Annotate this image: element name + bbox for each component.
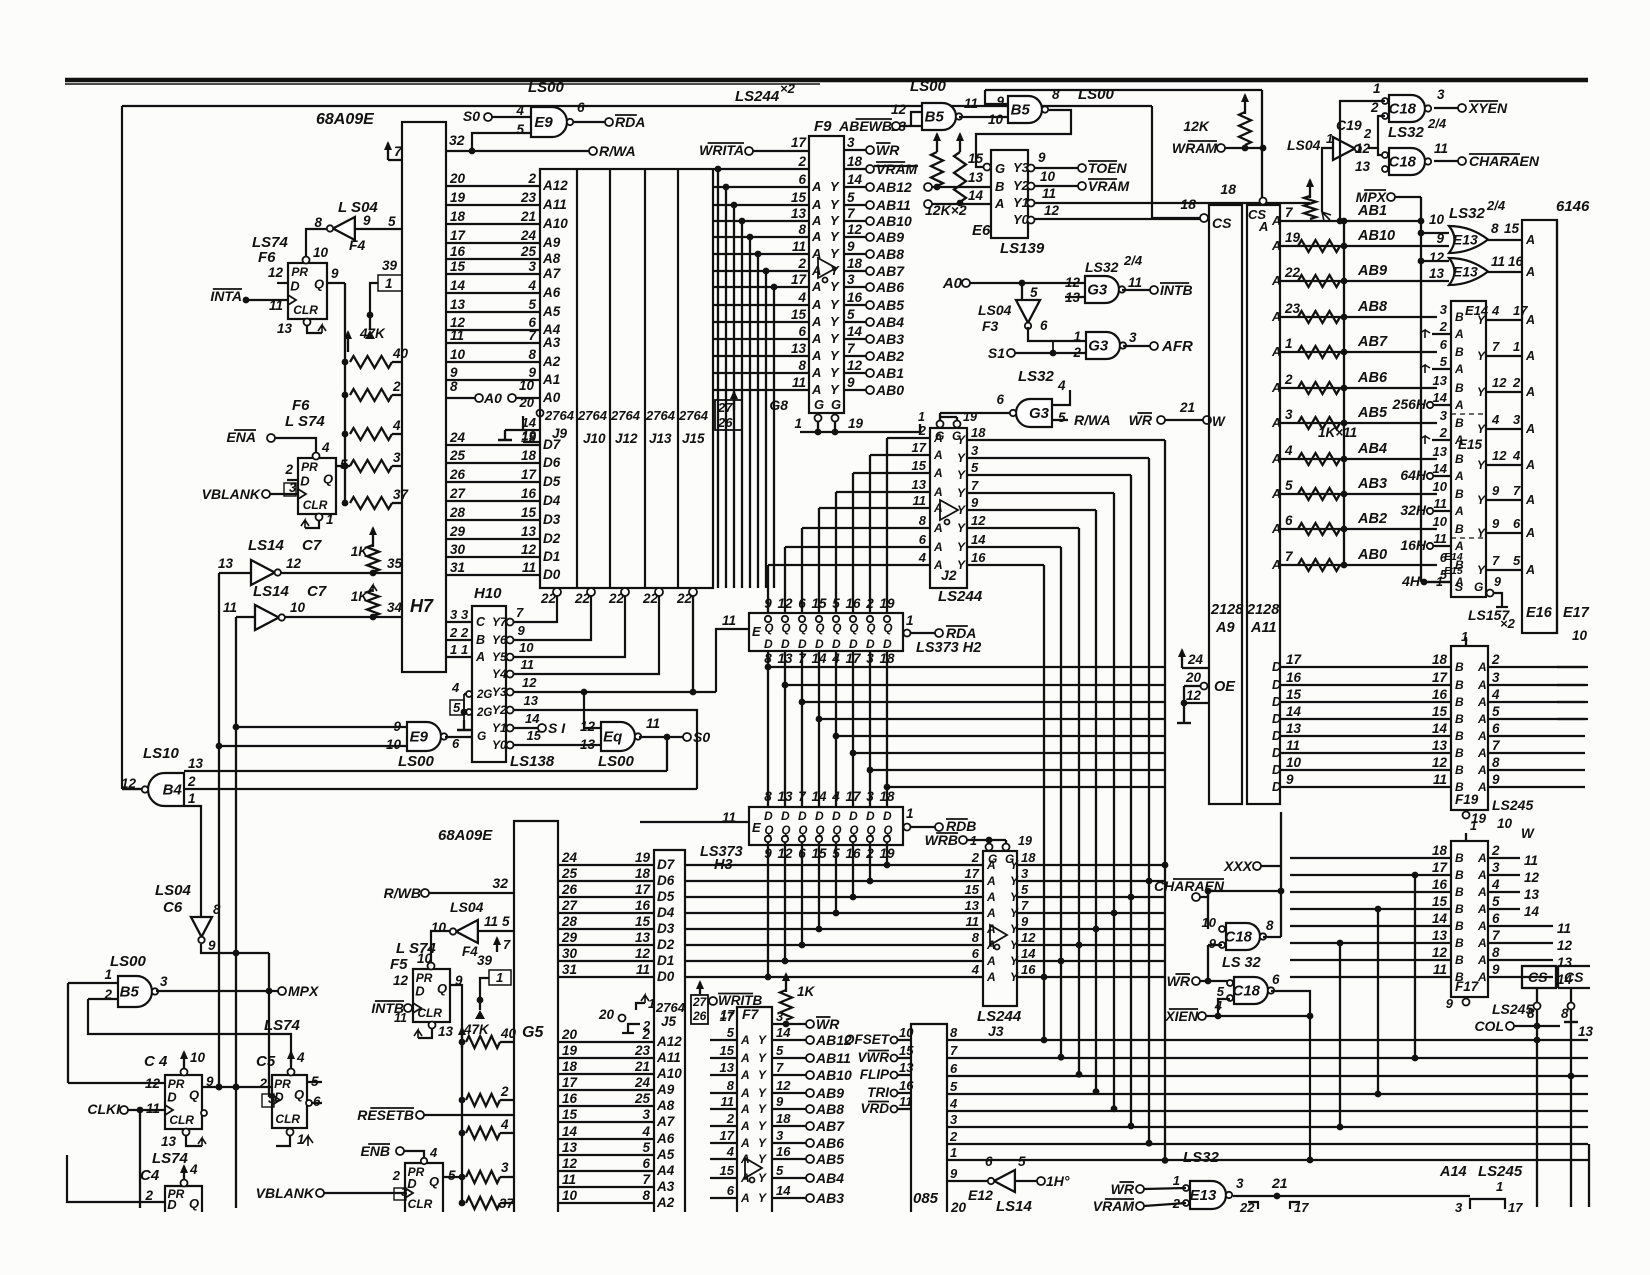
svg-text:4: 4 xyxy=(1491,412,1500,427)
svg-text:A: A xyxy=(933,558,943,572)
svg-text:15: 15 xyxy=(635,914,651,929)
svg-text:17: 17 xyxy=(912,440,927,455)
svg-text:Y3: Y3 xyxy=(492,685,507,699)
svg-text:LS00: LS00 xyxy=(528,79,565,96)
IC F7 LS244 buffer xyxy=(737,1007,772,1212)
svg-text:W: W xyxy=(1521,826,1535,841)
svg-text:11: 11 xyxy=(1557,921,1571,936)
wire CS1 vertical down xyxy=(1536,1010,1538,1207)
svg-text:E9: E9 xyxy=(534,114,553,131)
svg-text:J12: J12 xyxy=(615,431,638,446)
svg-text:10: 10 xyxy=(1497,816,1513,831)
svg-text:A6: A6 xyxy=(542,285,561,300)
svg-text:D5: D5 xyxy=(657,889,675,904)
svg-text:12: 12 xyxy=(1557,938,1573,953)
svg-text:C18: C18 xyxy=(1388,154,1416,171)
svg-text:F9: F9 xyxy=(814,118,832,135)
svg-text:31: 31 xyxy=(562,962,577,977)
svg-text:3: 3 xyxy=(1437,87,1445,102)
bus F9 input rows from EPROM side xyxy=(714,168,809,170)
svg-text:18: 18 xyxy=(521,448,537,463)
svg-text:5: 5 xyxy=(453,700,461,715)
svg-text:A14: A14 xyxy=(1439,1164,1467,1180)
svg-text:A: A xyxy=(1477,695,1487,709)
svg-text:5: 5 xyxy=(502,914,510,929)
svg-text:6: 6 xyxy=(798,172,806,187)
svg-text:3: 3 xyxy=(1285,407,1293,422)
svg-text:5: 5 xyxy=(950,1079,958,1094)
bus verticals F17 inputs to bottom mesh xyxy=(1414,875,1416,1058)
svg-text:12: 12 xyxy=(562,1156,578,1171)
svg-text:Q: Q xyxy=(429,1174,439,1189)
svg-text:G: G xyxy=(477,729,486,743)
svg-text:5: 5 xyxy=(448,1168,456,1183)
svg-text:B: B xyxy=(1455,851,1464,865)
svg-text:13: 13 xyxy=(635,930,651,945)
svg-text:CS: CS xyxy=(1564,969,1584,985)
svg-text:2: 2 xyxy=(797,256,806,271)
svg-text:A: A xyxy=(986,874,996,888)
svg-text:13: 13 xyxy=(1557,955,1573,970)
svg-text:25: 25 xyxy=(561,866,578,881)
svg-text:D1: D1 xyxy=(657,953,674,968)
svg-text:D: D xyxy=(1272,678,1281,692)
svg-text:XYEN: XYEN xyxy=(1468,100,1508,116)
svg-text:13: 13 xyxy=(1524,887,1540,902)
svg-text:A3: A3 xyxy=(656,1179,675,1194)
svg-text:A: A xyxy=(811,246,821,261)
svg-text:LS138: LS138 xyxy=(510,753,555,770)
svg-text:A: A xyxy=(1525,349,1535,363)
wire B5 inputs xyxy=(68,982,118,984)
svg-text:24: 24 xyxy=(634,1075,651,1090)
svg-text:Q: Q xyxy=(189,1196,199,1211)
svg-text:18: 18 xyxy=(847,154,863,169)
svg-text:1: 1 xyxy=(450,642,457,657)
svg-text:3: 3 xyxy=(1492,670,1500,685)
svg-text:A: A xyxy=(933,466,943,480)
svg-text:7: 7 xyxy=(776,1060,784,1075)
svg-text:8: 8 xyxy=(1527,1006,1535,1021)
svg-text:6: 6 xyxy=(1492,721,1500,736)
svg-text:VBLANK: VBLANK xyxy=(256,1185,315,1201)
svg-text:A: A xyxy=(740,1136,750,1150)
svg-text:Y: Y xyxy=(830,382,840,397)
svg-text:D: D xyxy=(290,279,300,294)
svg-text:15: 15 xyxy=(791,307,807,322)
svg-text:13: 13 xyxy=(899,1060,914,1075)
wire Y7 to EPROM 22 pin1 xyxy=(514,596,557,622)
svg-text:2: 2 xyxy=(949,1129,958,1144)
svg-text:A: A xyxy=(1271,310,1281,324)
svg-text:16: 16 xyxy=(847,290,863,305)
svg-text:D: D xyxy=(798,809,807,823)
svg-text:5: 5 xyxy=(1021,882,1029,897)
svg-text:1: 1 xyxy=(950,1145,957,1160)
svg-text:11: 11 xyxy=(146,1101,160,1116)
svg-text:20: 20 xyxy=(519,395,535,410)
svg-text:B: B xyxy=(1455,868,1464,882)
svg-text:D2: D2 xyxy=(657,937,675,952)
wire Y0 to E9-2 pin 13 xyxy=(514,744,601,746)
svg-text:8: 8 xyxy=(1561,1006,1569,1021)
svg-text:13: 13 xyxy=(1433,373,1448,388)
svg-text:32H: 32H xyxy=(1400,502,1427,518)
svg-text:A: A xyxy=(1477,936,1487,950)
svg-text:D: D xyxy=(1272,695,1281,709)
svg-text:S0: S0 xyxy=(693,729,710,745)
svg-text:1H°: 1H° xyxy=(1046,1173,1070,1189)
svg-text:WRB: WRB xyxy=(925,832,958,848)
svg-text:3: 3 xyxy=(501,1160,509,1175)
svg-text:A: A xyxy=(1271,214,1281,228)
svg-text:13: 13 xyxy=(720,1060,735,1075)
flip-flop VBLANK LS74 bottom xyxy=(405,1163,443,1212)
svg-text:Q: Q xyxy=(314,276,324,291)
svg-text:6: 6 xyxy=(577,100,585,115)
svg-text:CHARAEN: CHARAEN xyxy=(1469,153,1540,169)
gate E13 LS32 bottom xyxy=(1190,1181,1226,1209)
svg-text:Y: Y xyxy=(830,263,840,278)
svg-text:COL: COL xyxy=(1474,1018,1504,1034)
svg-text:14: 14 xyxy=(525,711,540,726)
svg-text:Y1: Y1 xyxy=(492,721,507,735)
svg-text:14: 14 xyxy=(1286,704,1302,719)
svg-text:18: 18 xyxy=(847,256,863,271)
pin 19 F19 xyxy=(1463,812,1470,819)
svg-text:3: 3 xyxy=(450,607,458,622)
IC J5 2764 EPROM xyxy=(654,850,685,1212)
svg-text:AB9: AB9 xyxy=(815,1085,844,1101)
svg-text:Y: Y xyxy=(957,433,966,447)
svg-text:2764: 2764 xyxy=(678,408,709,423)
svg-text:1: 1 xyxy=(1436,575,1443,589)
svg-text:2764: 2764 xyxy=(544,408,575,423)
svg-text:7: 7 xyxy=(503,937,511,952)
svg-text:13: 13 xyxy=(1355,159,1371,174)
svg-text:11: 11 xyxy=(966,914,980,929)
svg-text:8: 8 xyxy=(950,1025,958,1040)
svg-text:8: 8 xyxy=(727,1078,735,1093)
svg-text:D6: D6 xyxy=(657,873,675,888)
svg-text:6: 6 xyxy=(642,1156,650,1171)
box pins 27 26 F7 xyxy=(691,995,708,1024)
svg-text:E6: E6 xyxy=(972,222,991,239)
svg-text:R/WA: R/WA xyxy=(599,143,636,159)
svg-text:68A09E: 68A09E xyxy=(316,111,375,128)
svg-text:A3: A3 xyxy=(542,335,561,350)
svg-text:B: B xyxy=(1455,953,1464,967)
svg-text:5: 5 xyxy=(516,122,524,137)
svg-text:14: 14 xyxy=(776,1025,791,1040)
svg-text:F17: F17 xyxy=(1455,979,1480,994)
svg-text:13: 13 xyxy=(218,556,234,571)
svg-text:A: A xyxy=(1454,327,1464,341)
bus verticals H2 to J2 xyxy=(886,438,888,613)
svg-text:XIEN: XIEN xyxy=(1164,1008,1199,1024)
svg-text:20: 20 xyxy=(449,171,466,186)
svg-text:E: E xyxy=(752,624,761,639)
IC J3 LS244 buffer xyxy=(983,851,1017,1006)
svg-text:2: 2 xyxy=(1512,375,1521,390)
svg-text:LS00: LS00 xyxy=(398,753,435,770)
wire Y3 long to H2 E xyxy=(514,691,716,693)
svg-text:VRAM: VRAM xyxy=(1093,1198,1135,1214)
svg-text:J3: J3 xyxy=(988,1023,1004,1039)
svg-text:8: 8 xyxy=(972,930,980,945)
svg-text:1: 1 xyxy=(1470,819,1477,833)
wire row B4 pin1 to C6 xyxy=(185,806,201,916)
svg-text:Y: Y xyxy=(1477,493,1486,507)
svg-text:A6: A6 xyxy=(656,1131,675,1146)
svg-text:10: 10 xyxy=(1433,479,1448,494)
svg-text:2764: 2764 xyxy=(645,408,676,423)
svg-text:25: 25 xyxy=(634,1091,651,1106)
svg-text:27: 27 xyxy=(692,995,708,1009)
svg-text:PR: PR xyxy=(291,265,308,279)
svg-text:3: 3 xyxy=(393,450,401,465)
svg-text:LS00: LS00 xyxy=(1078,86,1115,103)
svg-text:AB11: AB11 xyxy=(875,197,911,213)
svg-text:6: 6 xyxy=(1285,513,1293,528)
svg-text:B: B xyxy=(1455,885,1464,899)
svg-text:9: 9 xyxy=(1209,936,1217,951)
IC E14 E15 LS157 multiplexers xyxy=(1451,301,1486,597)
svg-text:AB5: AB5 xyxy=(875,297,904,313)
svg-text:A10: A10 xyxy=(656,1066,682,1081)
svg-text:Q: Q xyxy=(833,623,842,635)
wire E9-1 input rows xyxy=(236,726,407,728)
svg-text:12: 12 xyxy=(971,513,986,528)
svg-text:D: D xyxy=(1272,780,1281,794)
svg-text:E9: E9 xyxy=(410,729,429,746)
svg-text:LS32: LS32 xyxy=(1388,124,1425,141)
svg-text:B5: B5 xyxy=(120,984,140,1001)
svg-text:A: A xyxy=(933,431,943,445)
svg-text:VWR: VWR xyxy=(858,1050,890,1065)
svg-text:17: 17 xyxy=(635,882,652,897)
svg-text:TOEN: TOEN xyxy=(1088,160,1128,176)
svg-text:9: 9 xyxy=(847,375,855,390)
svg-text:4: 4 xyxy=(918,550,927,565)
svg-text:1: 1 xyxy=(906,613,914,628)
svg-text:E12: E12 xyxy=(968,1187,993,1203)
svg-text:AB10: AB10 xyxy=(1357,228,1395,244)
svg-text:AB7: AB7 xyxy=(815,1118,845,1134)
svg-text:3: 3 xyxy=(1440,408,1448,423)
svg-text:3: 3 xyxy=(642,1107,650,1122)
svg-text:3: 3 xyxy=(776,1009,784,1024)
svg-text:6: 6 xyxy=(919,532,927,547)
svg-text:13: 13 xyxy=(521,524,537,539)
svg-text:2: 2 xyxy=(258,1076,267,1091)
svg-text:F4: F4 xyxy=(462,944,478,959)
svg-text:B5: B5 xyxy=(1011,102,1031,119)
svg-text:D: D xyxy=(300,474,310,489)
svg-text:25: 25 xyxy=(520,244,537,259)
wire B5-2 feedback top xyxy=(985,89,1262,91)
svg-text:11: 11 xyxy=(223,600,237,615)
svg-text:×2: ×2 xyxy=(780,81,796,96)
wire 085 pin 9 to E12 xyxy=(947,1180,990,1182)
svg-text:1: 1 xyxy=(1285,336,1293,351)
svg-text:AB0: AB0 xyxy=(1357,547,1387,563)
svg-text:1: 1 xyxy=(297,1132,305,1147)
svg-text:B: B xyxy=(1455,902,1464,916)
svg-text:3: 3 xyxy=(776,1128,784,1143)
svg-text:B: B xyxy=(1455,660,1464,674)
svg-text:Y: Y xyxy=(758,1136,767,1150)
svg-text:A: A xyxy=(1477,746,1487,760)
svg-text:Y: Y xyxy=(1477,422,1486,436)
svg-text:12: 12 xyxy=(891,102,907,117)
svg-text:D: D xyxy=(1272,746,1281,760)
svg-text:ABEWB: ABEWB xyxy=(838,118,892,134)
vertical bus C7 outputs down xyxy=(218,573,220,1087)
svg-text:A: A xyxy=(933,540,943,554)
svg-text:1K×11: 1K×11 xyxy=(1318,425,1357,440)
wire S0 feedback down to row 771 xyxy=(666,737,668,771)
bus data D7-D0 H7 to 2764 EPROMs xyxy=(446,444,540,446)
svg-text:11: 11 xyxy=(394,1011,407,1025)
wire Y1 long right xyxy=(1035,202,1310,204)
svg-text:12: 12 xyxy=(268,265,284,280)
svg-text:B: B xyxy=(476,633,485,647)
svg-text:2128: 2128 xyxy=(1210,602,1244,618)
svg-text:B: B xyxy=(1455,452,1464,466)
svg-text:11: 11 xyxy=(1042,186,1056,201)
svg-text:H7: H7 xyxy=(410,596,434,616)
svg-text:AB5: AB5 xyxy=(815,1151,844,1167)
svg-text:D: D xyxy=(407,1176,417,1191)
svg-text:A: A xyxy=(1271,345,1281,359)
svg-text:Y: Y xyxy=(957,503,966,517)
svg-text:10: 10 xyxy=(290,600,306,615)
svg-text:20: 20 xyxy=(598,1007,615,1022)
svg-text:10: 10 xyxy=(519,640,534,655)
svg-text:1: 1 xyxy=(385,276,393,291)
wire AB11 to E6 A xyxy=(924,200,932,208)
svg-text:A: A xyxy=(1477,660,1487,674)
buffer triangle inside J2 xyxy=(940,500,958,520)
svg-text:D0: D0 xyxy=(657,969,675,984)
svg-text:9: 9 xyxy=(847,239,855,254)
svg-text:1: 1 xyxy=(794,416,802,431)
svg-text:24: 24 xyxy=(561,850,578,865)
svg-text:4: 4 xyxy=(1284,443,1293,458)
svg-text:19: 19 xyxy=(963,410,977,424)
svg-text:1: 1 xyxy=(104,967,112,982)
svg-text:AB3: AB3 xyxy=(875,331,904,347)
resistor 47K pin 3 row xyxy=(443,1176,462,1178)
svg-text:A: A xyxy=(1454,398,1464,412)
svg-text:14: 14 xyxy=(1524,904,1540,919)
svg-text:D1: D1 xyxy=(543,549,560,564)
svg-text:9: 9 xyxy=(1494,575,1501,589)
svg-text:Y: Y xyxy=(1477,385,1486,399)
svg-text:13: 13 xyxy=(277,321,293,336)
svg-text:68A09E: 68A09E xyxy=(438,827,493,844)
svg-text:3: 3 xyxy=(160,974,168,989)
svg-text:F19: F19 xyxy=(1455,792,1479,807)
svg-text:16H: 16H xyxy=(1400,537,1427,553)
svg-text:CLR: CLR xyxy=(408,1197,433,1211)
svg-text:9: 9 xyxy=(1038,150,1046,165)
svg-text:12: 12 xyxy=(1432,945,1448,960)
svg-text:RESETB: RESETB xyxy=(357,1107,414,1123)
svg-text:7: 7 xyxy=(1021,898,1029,913)
svg-text:11: 11 xyxy=(1434,496,1448,511)
svg-text:Y6: Y6 xyxy=(492,633,507,647)
svg-text:A: A xyxy=(1477,885,1487,899)
svg-text:Y: Y xyxy=(957,521,966,535)
svg-text:Y: Y xyxy=(830,365,840,380)
svg-text:2: 2 xyxy=(392,1168,401,1183)
svg-text:34: 34 xyxy=(387,600,403,615)
svg-text:2: 2 xyxy=(527,171,536,186)
svg-text:Y: Y xyxy=(758,1191,767,1205)
svg-text:5: 5 xyxy=(1492,894,1500,909)
svg-text:A: A xyxy=(1477,763,1487,777)
IC E6 LS139 decoder xyxy=(991,150,1028,238)
svg-text:A: A xyxy=(1477,953,1487,967)
svg-text:A0: A0 xyxy=(483,390,502,406)
svg-text:30: 30 xyxy=(450,542,466,557)
svg-text:C4: C4 xyxy=(140,1167,160,1184)
svg-text:C18: C18 xyxy=(1224,929,1252,946)
svg-text:2: 2 xyxy=(284,462,293,477)
wire C18-4 out down to mesh xyxy=(1271,991,1310,1160)
svg-text:A: A xyxy=(1271,487,1281,501)
svg-text:A9: A9 xyxy=(656,1082,675,1097)
svg-text:Y: Y xyxy=(758,1086,767,1100)
svg-text:A0: A0 xyxy=(942,275,963,292)
svg-text:A: A xyxy=(994,196,1004,211)
svg-text:2: 2 xyxy=(642,1018,651,1033)
svg-text:3: 3 xyxy=(1492,860,1500,875)
svg-text:3: 3 xyxy=(528,259,536,274)
svg-text:29: 29 xyxy=(449,524,466,539)
svg-text:5: 5 xyxy=(388,214,396,229)
wire Y3 to TOEN xyxy=(1035,167,1078,169)
wire XXX vertical xyxy=(1280,812,1282,937)
svg-text:Y2: Y2 xyxy=(492,703,507,717)
svg-text:A: A xyxy=(986,938,996,952)
svg-text:4: 4 xyxy=(726,1144,735,1159)
svg-text:AB4: AB4 xyxy=(815,1170,844,1186)
svg-text:17: 17 xyxy=(562,1075,579,1090)
svg-text:Y: Y xyxy=(830,179,840,194)
svg-text:7: 7 xyxy=(394,143,403,159)
svg-text:C5: C5 xyxy=(256,1053,276,1070)
svg-text:D: D xyxy=(764,637,773,651)
bracket 22/17 bottom xyxy=(1248,1202,1258,1209)
svg-text:14: 14 xyxy=(450,278,466,293)
svg-text:VRD: VRD xyxy=(860,1101,889,1116)
pins E6 outputs xyxy=(1028,165,1035,172)
svg-text:11: 11 xyxy=(1128,275,1142,290)
svg-text:8: 8 xyxy=(798,222,806,237)
svg-text:4: 4 xyxy=(527,278,536,293)
svg-text:A: A xyxy=(811,197,821,212)
svg-text:13: 13 xyxy=(580,737,596,752)
svg-text:CLR: CLR xyxy=(293,303,318,317)
svg-text:D: D xyxy=(1272,763,1281,777)
svg-text:15: 15 xyxy=(1432,894,1448,909)
svg-text:J15: J15 xyxy=(682,431,705,446)
svg-text:LS00: LS00 xyxy=(910,78,947,95)
svg-text:2764: 2764 xyxy=(577,408,608,423)
